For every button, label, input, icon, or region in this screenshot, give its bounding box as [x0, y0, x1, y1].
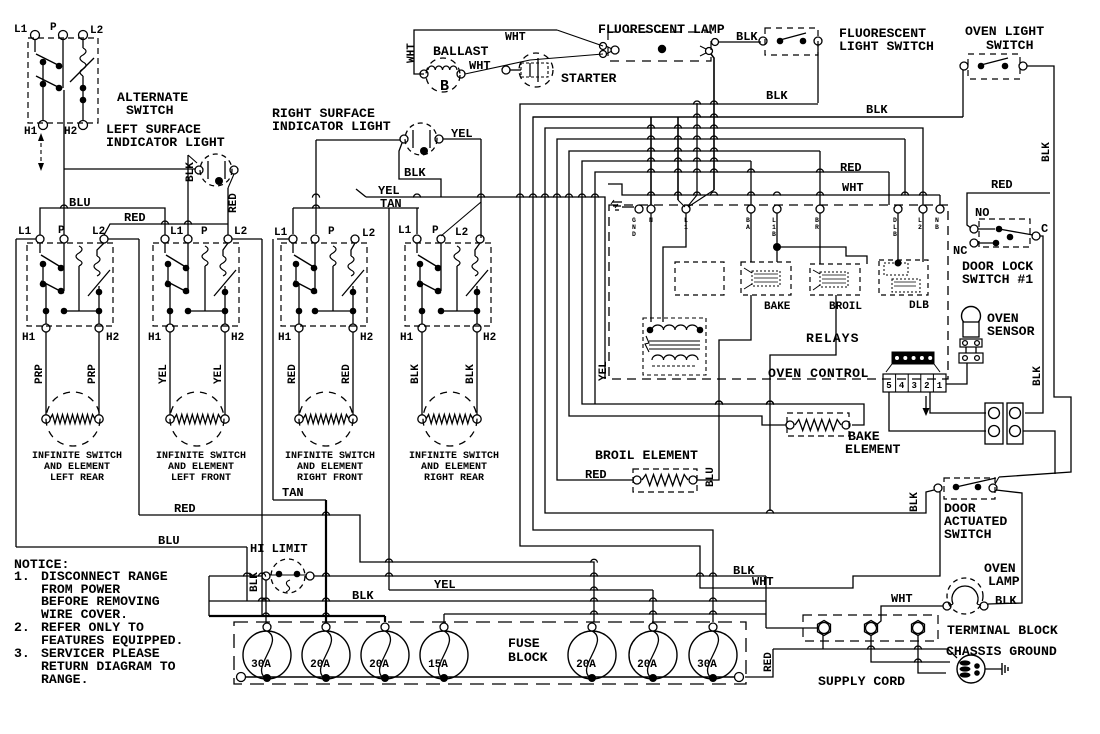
- svg-text:20A: 20A: [637, 659, 657, 671]
- svg-text:BLK: BLK: [766, 89, 788, 103]
- svg-text:D: D: [632, 231, 636, 238]
- svg-text:A: A: [746, 224, 750, 231]
- svg-text:BLK: BLK: [185, 162, 197, 182]
- wires to element LEFT FRONT: [158, 332, 225, 415]
- wire WHT to oven lamp: [875, 592, 943, 626]
- svg-text:LEFT REAR: LEFT REAR: [50, 473, 104, 484]
- svg-text:1: 1: [772, 224, 776, 231]
- svg-text:AND ELEMENT: AND ELEMENT: [297, 462, 363, 473]
- surface switch block3: [281, 235, 367, 332]
- wire BLK to hi limit: [209, 575, 262, 577]
- broil element: [585, 448, 698, 492]
- label DOOR LOCK SWITCH #1: [962, 259, 1033, 287]
- svg-text:H2: H2: [231, 332, 244, 344]
- wire to right indicator from block3 P: [316, 140, 400, 234]
- svg-text:3.: 3.: [14, 646, 30, 661]
- svg-text:N: N: [632, 224, 636, 231]
- wire from alternate switch P down to block1 P: [63, 90, 65, 235]
- svg-text:RED: RED: [840, 161, 862, 175]
- svg-text:L1: L1: [14, 24, 28, 36]
- wire YEL into control: [598, 361, 610, 381]
- svg-text:20A: 20A: [576, 659, 596, 671]
- wire BLU long: [16, 534, 247, 601]
- svg-text:BAKE: BAKE: [764, 301, 791, 313]
- svg-text:SWITCH: SWITCH: [126, 103, 174, 118]
- svg-text:SWITCH: SWITCH: [986, 38, 1034, 53]
- svg-text:PRP: PRP: [87, 364, 99, 384]
- left surface indicator light: [195, 154, 238, 186]
- svg-text:RED: RED: [991, 178, 1013, 192]
- svg-text:BALLAST: BALLAST: [433, 44, 488, 59]
- wires to element RIGHT FRONT: [287, 332, 353, 415]
- wire heavy bottom to fuse3: [209, 616, 385, 622]
- svg-text:L2: L2: [455, 227, 468, 239]
- wire lamp right down to bus: [688, 54, 714, 207]
- label OVEN LIGHT SWITCH: [965, 24, 1044, 53]
- alternate switch: [14, 22, 103, 138]
- svg-text:RED: RED: [124, 211, 146, 225]
- wires to element LEFT REAR: [34, 332, 99, 415]
- surface switch block2: [153, 235, 239, 332]
- fluorescent lamp: [598, 22, 725, 61]
- svg-text:FLUORESCENT LAMP: FLUORESCENT LAMP: [598, 22, 725, 37]
- svg-text:L1: L1: [18, 226, 32, 238]
- svg-text:BLK: BLK: [909, 492, 921, 512]
- svg-text:BLU: BLU: [705, 467, 717, 487]
- svg-text:SUPPLY CORD: SUPPLY CORD: [818, 674, 905, 689]
- wire BLU from broil element: [697, 379, 719, 487]
- fuse 30A at x=267: [243, 623, 291, 682]
- fuse 15A at x=444: [420, 623, 468, 682]
- connector block (black): [886, 352, 940, 372]
- svg-text:WHT: WHT: [406, 43, 418, 63]
- door lock switch #1: [953, 206, 1048, 258]
- svg-text:L1: L1: [398, 225, 412, 237]
- svg-text:DLB: DLB: [909, 300, 929, 312]
- svg-text:P: P: [58, 225, 65, 237]
- svg-text:YEL: YEL: [598, 361, 610, 381]
- label infinite switch LEFT FRONT: [156, 451, 246, 484]
- svg-text:SWITCH #1: SWITCH #1: [962, 272, 1033, 287]
- wire YEL row: [389, 208, 653, 622]
- svg-text:5: 5: [886, 381, 891, 391]
- svg-text:H2: H2: [106, 332, 119, 344]
- svg-text:SWITCH: SWITCH: [944, 527, 992, 542]
- wire N terminal riser: [650, 117, 652, 205]
- svg-text:WHT: WHT: [842, 181, 864, 195]
- wire WHT ballast right: [465, 54, 603, 74]
- label OVEN LAMP: [984, 561, 1020, 589]
- svg-text:R: R: [815, 224, 819, 231]
- wire from block1 L2 to rail: [108, 239, 139, 515]
- fluorescent light switch: [759, 28, 822, 55]
- right surface indicator light: [400, 123, 443, 155]
- svg-text:2: 2: [918, 224, 922, 231]
- wire lamp to fluorescent light switch: [719, 41, 761, 43]
- svg-text:2: 2: [924, 381, 929, 391]
- relay BAKE: [741, 262, 791, 313]
- label LEFT SURFACE INDICATOR LIGHT: [106, 122, 225, 150]
- label DOOR ACTUATED SWITCH: [944, 501, 1007, 542]
- fuse 20A at x=385: [361, 623, 409, 682]
- svg-text:TAN: TAN: [282, 486, 304, 500]
- starter: [502, 53, 616, 87]
- wires to element RIGHT REAR: [410, 332, 477, 415]
- svg-text:B: B: [440, 78, 449, 95]
- svg-text:YEL: YEL: [213, 364, 225, 384]
- wire TAN between block3 and block4: [293, 197, 481, 236]
- svg-text:H1: H1: [278, 332, 292, 344]
- svg-text:RANGE.: RANGE.: [41, 672, 88, 687]
- surface switch block4: [405, 235, 491, 332]
- svg-text:BLK: BLK: [995, 594, 1017, 608]
- oven lamp: [943, 578, 1017, 614]
- terminal labels: [632, 217, 939, 238]
- wire bus 4 DLB / broil RED: [557, 139, 905, 480]
- bake element: [786, 413, 900, 457]
- wire TAN to fuse2: [273, 486, 326, 622]
- svg-text:H2: H2: [483, 332, 496, 344]
- svg-text:BLK: BLK: [1032, 366, 1044, 386]
- oven light switch: [960, 54, 1027, 79]
- svg-text:RED: RED: [585, 468, 607, 482]
- wire WHT from ballast to lamp: [406, 30, 603, 74]
- wire YEL from right indicator: [443, 127, 481, 238]
- wire RED vertical to block2 L2: [228, 174, 240, 235]
- svg-text:30A: 30A: [251, 659, 271, 671]
- oven control terminals: [635, 205, 944, 213]
- svg-text:B: B: [893, 231, 897, 238]
- terminal block: [803, 615, 938, 641]
- svg-text:INDICATOR LIGHT: INDICATOR LIGHT: [106, 135, 225, 150]
- svg-text:L1: L1: [274, 227, 288, 239]
- svg-text:BROIL ELEMENT: BROIL ELEMENT: [595, 448, 698, 463]
- svg-text:N: N: [935, 217, 939, 224]
- svg-text:LEFT FRONT: LEFT FRONT: [171, 473, 231, 484]
- fuse block dashed box: [234, 622, 746, 684]
- svg-text:20A: 20A: [310, 659, 330, 671]
- wire bus 2 RED to fuse7: [533, 117, 963, 622]
- svg-text:RIGHT FRONT: RIGHT FRONT: [297, 473, 363, 484]
- label infinite switch RIGHT FRONT: [285, 451, 375, 484]
- svg-text:FUSE: FUSE: [508, 636, 540, 651]
- svg-text:BLK: BLK: [1041, 142, 1053, 162]
- wire BLK lamp fixture to oven light switch: [533, 70, 963, 117]
- svg-text:4: 4: [899, 381, 905, 391]
- svg-text:C: C: [1041, 222, 1048, 236]
- wire RED to door lock NO: [967, 193, 1050, 228]
- wire bus 1 (y104 to door switch via y513... ): [520, 104, 940, 588]
- svg-text:AND ELEMENT: AND ELEMENT: [168, 462, 234, 473]
- svg-text:OVEN LIGHT: OVEN LIGHT: [965, 24, 1044, 39]
- wire from block2 L2 to rail: [232, 239, 262, 616]
- wire RED between block1 L2 and block2 L2: [104, 211, 228, 235]
- svg-text:NO: NO: [975, 206, 989, 220]
- svg-text:WHT: WHT: [891, 592, 913, 606]
- notice text: [14, 557, 183, 687]
- wire riser to L1 terminal: [678, 117, 685, 207]
- svg-text:INFINITE SWITCH: INFINITE SWITCH: [285, 451, 375, 462]
- svg-text:INDICATOR LIGHT: INDICATOR LIGHT: [272, 119, 391, 134]
- wire BLK below right indicator: [399, 143, 441, 197]
- svg-text:BROIL: BROIL: [829, 301, 862, 313]
- infinite switch and element LEFT REAR: [42, 392, 103, 446]
- svg-text:P: P: [50, 22, 57, 34]
- svg-text:INFINITE SWITCH: INFINITE SWITCH: [409, 451, 499, 462]
- left rail BLU vertical: [15, 239, 17, 547]
- svg-text:RED: RED: [287, 364, 299, 384]
- relay box empty: [675, 262, 724, 295]
- wire row to fuse4 and terminal block: [444, 576, 817, 628]
- label infinite switch RIGHT REAR: [409, 451, 499, 484]
- svg-text:HI LIMIT: HI LIMIT: [250, 542, 308, 556]
- wire BLK long bottom: [209, 589, 766, 603]
- svg-text:YEL: YEL: [378, 184, 400, 198]
- svg-text:P: P: [432, 225, 439, 237]
- fuse 30A at x=713: [689, 623, 737, 682]
- svg-text:3: 3: [911, 381, 916, 391]
- svg-text:1.: 1.: [14, 569, 30, 584]
- svg-text:1: 1: [937, 381, 943, 391]
- infinite switch and element LEFT FRONT: [166, 392, 229, 446]
- door actuated switch: [909, 478, 997, 512]
- svg-text:H2: H2: [64, 126, 77, 138]
- svg-text:AND ELEMENT: AND ELEMENT: [421, 462, 487, 473]
- svg-text:INFINITE SWITCH: INFINITE SWITCH: [32, 451, 122, 462]
- dashed arrow from alternate switch H1: [38, 133, 44, 171]
- svg-text:L1: L1: [170, 226, 184, 238]
- wire from block1 L1 to left rail: [16, 238, 36, 240]
- svg-text:20A: 20A: [369, 659, 389, 671]
- wire from terminal pair lower to BLK: [1023, 431, 1055, 474]
- oven sensor: [946, 307, 1035, 385]
- svg-text:INFINITE SWITCH: INFINITE SWITCH: [156, 451, 246, 462]
- connector pin row 5..1: [883, 374, 946, 392]
- relay feed wires: [751, 213, 923, 267]
- svg-text:TAN: TAN: [380, 197, 402, 211]
- relay BROIL: [810, 264, 862, 313]
- svg-text:L: L: [893, 224, 897, 231]
- wire door switch to oven lamp: [988, 490, 1022, 604]
- label infinite switch LEFT REAR: [32, 451, 122, 484]
- svg-text:H2: H2: [360, 332, 373, 344]
- fuse bottom rail: [237, 673, 744, 682]
- fuse 20A at x=326: [302, 623, 350, 682]
- svg-text:BLOCK: BLOCK: [508, 650, 548, 665]
- svg-text:LAMP: LAMP: [988, 574, 1020, 589]
- wire YEL horizontal long: [356, 184, 605, 379]
- svg-text:SENSOR: SENSOR: [987, 324, 1035, 339]
- chassis ground connector: [957, 655, 985, 683]
- svg-text:PRP: PRP: [34, 364, 46, 384]
- svg-text:P: P: [328, 226, 335, 238]
- supply cord wires: [773, 635, 957, 673]
- svg-text:AND ELEMENT: AND ELEMENT: [44, 462, 110, 473]
- ballast B: [420, 44, 488, 95]
- svg-text:H1: H1: [24, 126, 38, 138]
- svg-text:WHT: WHT: [505, 31, 526, 44]
- svg-text:RIGHT REAR: RIGHT REAR: [424, 473, 484, 484]
- svg-text:RELAYS: RELAYS: [806, 331, 859, 346]
- switch block terminal labels: [18, 225, 496, 344]
- svg-text:B: B: [935, 224, 939, 231]
- fuse 20A at x=653: [629, 623, 677, 682]
- wire from control to bake circuit: [769, 379, 771, 511]
- connector wires and arrow: [889, 392, 986, 431]
- svg-text:H1: H1: [22, 332, 36, 344]
- svg-text:STARTER: STARTER: [561, 71, 616, 86]
- label TERMINAL BLOCK / CHASSIS GROUND: [946, 623, 1058, 659]
- svg-text:RED: RED: [228, 193, 240, 213]
- svg-text:H1: H1: [400, 332, 414, 344]
- surface switch block1: [27, 235, 113, 332]
- wire bus 6 BA / bake right: [582, 161, 864, 425]
- terminal pair blocks: [985, 403, 1023, 444]
- wire BLK oven light switch to door actuated switch: [995, 66, 1071, 484]
- svg-text:L: L: [772, 217, 776, 224]
- svg-text:ELEMENT: ELEMENT: [845, 442, 900, 457]
- svg-text:BLK: BLK: [866, 103, 888, 117]
- wire BLK hi limit to fuse1: [249, 572, 266, 622]
- ground symbol: [985, 663, 1008, 675]
- svg-text:G: G: [632, 217, 636, 224]
- svg-text:H1: H1: [148, 332, 162, 344]
- svg-text:LIGHT SWITCH: LIGHT SWITCH: [839, 39, 934, 54]
- svg-text:CHASSIS GROUND: CHASSIS GROUND: [946, 644, 1057, 659]
- hi limit switch: [262, 559, 314, 593]
- transformer: [643, 213, 706, 375]
- relay DLB: [879, 260, 929, 312]
- oven control dashed box: [609, 205, 948, 381]
- wire bus 3 L2 line to door actuated switch: [545, 128, 934, 513]
- label ALTERNATE SWITCH: [117, 90, 188, 118]
- svg-text:BLK: BLK: [410, 364, 422, 384]
- ground symbol at GND terminal: [611, 200, 634, 210]
- wire BLU between block1 and block2: [40, 196, 165, 235]
- svg-text:L2: L2: [362, 228, 375, 240]
- wire RED long (switch rail to fuse5): [139, 502, 594, 622]
- wire bus 7 RED: [595, 161, 889, 404]
- bus crossover bumps: [516, 101, 926, 198]
- svg-text:B: B: [746, 217, 750, 224]
- wire crossover bumps top-left: [60, 194, 484, 225]
- svg-text:YEL: YEL: [158, 364, 170, 384]
- wire bus 8 WHT: [608, 181, 940, 205]
- svg-text:RED: RED: [341, 364, 353, 384]
- svg-text:WHT: WHT: [752, 575, 774, 589]
- svg-text:P: P: [201, 226, 208, 238]
- svg-text:BLK: BLK: [736, 30, 758, 44]
- svg-text:BLU: BLU: [158, 534, 180, 548]
- label RIGHT SURFACE INDICATOR LIGHT: [272, 106, 391, 134]
- svg-text:B: B: [815, 217, 819, 224]
- svg-text:L2: L2: [234, 226, 247, 238]
- bottom band crossover bumps: [243, 401, 773, 617]
- svg-text:15A: 15A: [428, 659, 448, 671]
- svg-text:RED: RED: [174, 502, 196, 516]
- svg-text:D: D: [893, 217, 897, 224]
- svg-text:B: B: [772, 231, 776, 238]
- wire BLK from door lock C to oven lamp: [1025, 236, 1044, 413]
- wire BLK vertical to block2 P: [185, 155, 197, 235]
- wire TAN rail from block3 L1: [273, 239, 289, 500]
- infinite switch and element RIGHT REAR: [418, 392, 481, 446]
- svg-text:BLK: BLK: [465, 364, 477, 384]
- relay output wires to elements: [719, 295, 836, 379]
- wire BLK from indicator to block1 P: [64, 168, 195, 170]
- svg-text:OVEN CONTROL: OVEN CONTROL: [768, 366, 869, 381]
- svg-text:L2: L2: [90, 25, 103, 37]
- label FLUORESCENT LIGHT SWITCH: [839, 26, 934, 54]
- wire bus 5 BR / bake left: [569, 151, 820, 425]
- svg-text:TERMINAL BLOCK: TERMINAL BLOCK: [947, 623, 1058, 638]
- svg-text:2.: 2.: [14, 620, 30, 635]
- wire BLK fluorescent switch down to bus: [688, 45, 818, 206]
- infinite switch and element RIGHT FRONT: [295, 392, 357, 446]
- svg-text:L2: L2: [92, 226, 105, 238]
- wire BLK from hi limit right, to fuse6: [209, 564, 766, 616]
- wire RED from fuse rail to supply: [745, 649, 775, 677]
- svg-text:NC: NC: [953, 244, 967, 258]
- fuse 20A at x=592: [568, 623, 616, 682]
- svg-text:BLK: BLK: [404, 166, 426, 180]
- svg-text:L: L: [918, 217, 922, 224]
- svg-text:30A: 30A: [697, 659, 717, 671]
